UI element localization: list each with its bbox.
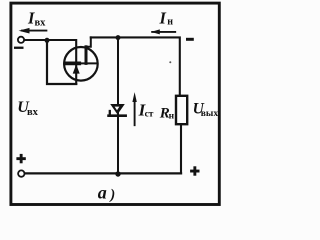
svg-text:вых: вых <box>201 109 219 119</box>
svg-text:н: н <box>167 17 173 28</box>
svg-text:а: а <box>98 182 107 202</box>
svg-text:вх: вх <box>35 17 47 28</box>
svg-text:): ) <box>108 187 115 203</box>
svg-text:I: I <box>159 9 167 28</box>
svg-text:н: н <box>169 112 175 122</box>
svg-text:вх: вх <box>27 107 39 118</box>
svg-text:ст: ст <box>145 110 154 120</box>
